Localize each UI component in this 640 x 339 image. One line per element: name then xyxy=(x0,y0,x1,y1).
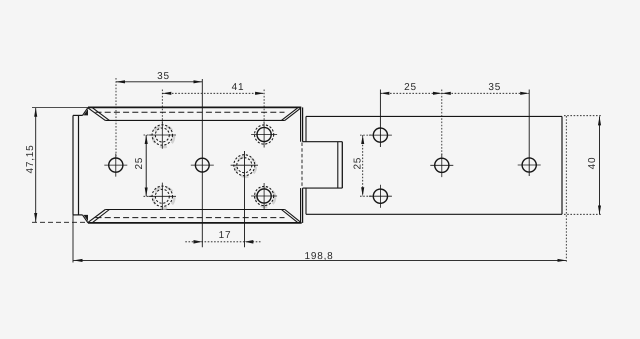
lock case top flange inner line xyxy=(105,119,284,121)
dim 35 line xyxy=(116,81,202,83)
lock case top-right fold diagonal inner xyxy=(281,108,297,121)
hole P1 centerline extension xyxy=(379,90,381,148)
lock case top edge xyxy=(88,106,301,108)
svg-text:17: 17 xyxy=(219,230,232,241)
dim 35 right line xyxy=(442,92,529,94)
hole C countersink dashed circle xyxy=(255,125,274,144)
dim 25 right vertical line xyxy=(362,135,364,196)
dim 198,8 line xyxy=(74,259,567,261)
lock case left cap outer wall xyxy=(72,115,74,214)
lock case bottom flange inner line xyxy=(105,209,284,211)
dim 17 line (dotted) xyxy=(185,241,261,243)
svg-text:47,15: 47,15 xyxy=(25,144,36,173)
latch bolt face inner line xyxy=(337,142,339,188)
lock case bottom-right fold diagonal outer xyxy=(285,210,301,223)
ghost scan smudges near holes B F E G xyxy=(153,126,275,208)
dim 25 left connector bottom (dotted) xyxy=(144,195,152,197)
strike plate left edge upper segment xyxy=(305,116,307,141)
lock case top-left corner fill xyxy=(84,109,89,115)
dim 41 extension to hole B (dotted) xyxy=(161,90,163,125)
lock case left cap inner wall xyxy=(78,115,80,214)
strike plate bottom edge xyxy=(306,213,562,215)
dim 35 extension to hole A (dotted) xyxy=(115,78,117,158)
lock case right cap outer wall lower xyxy=(300,188,302,223)
lock case top-right fold diagonal outer xyxy=(285,108,301,121)
dim 17 left arrow xyxy=(194,240,203,244)
strike plate right edge xyxy=(561,116,563,214)
hole P2 crosshair xyxy=(369,185,392,208)
hole E dashed circles xyxy=(234,155,255,176)
svg-text:25: 25 xyxy=(353,157,364,170)
latch bolt face outer line xyxy=(341,142,343,188)
lock case left cap bottom edge xyxy=(73,214,83,216)
lock case left cap top edge xyxy=(73,114,83,116)
dim 198,8 right extension (dotted) xyxy=(565,116,567,263)
latch bolt top edge xyxy=(303,141,343,143)
dim 47,15 bottom extension (dashed) xyxy=(32,221,88,223)
hole G countersink dashed circle xyxy=(255,186,274,205)
svg-text:35: 35 xyxy=(488,82,501,93)
lock case bottom-left fold diagonal inner xyxy=(92,210,109,223)
hole E centerline extension xyxy=(244,151,246,247)
hole F crosshair xyxy=(149,183,176,210)
dim 41 line xyxy=(162,92,264,94)
lock case bottom edge xyxy=(88,222,302,224)
hole B crosshair xyxy=(149,121,176,148)
lock case right cap inner wall upper xyxy=(302,107,304,141)
hole F dashed circles xyxy=(152,186,172,206)
lock case right cap inner wall lower xyxy=(302,188,304,223)
lock case bottom-left fold diagonal outer xyxy=(88,210,105,223)
strike plate left edge lower segment xyxy=(305,188,307,214)
latch bolt hidden root line (dashed) xyxy=(301,143,303,188)
hole A circle xyxy=(109,158,123,172)
dim 25 top extension to hole P3 (dotted) xyxy=(441,90,443,158)
lock case top-left fold diagonal outer xyxy=(88,108,105,121)
lock case right cap outer wall upper xyxy=(300,107,302,141)
hole B dashed circles xyxy=(152,125,172,145)
hole A crosshair xyxy=(104,154,127,177)
dim 17 right arrow xyxy=(245,240,254,244)
svg-text:198,8: 198,8 xyxy=(304,251,333,262)
hole P2 circle xyxy=(373,189,387,203)
lock case top-left corner chamfer xyxy=(83,107,89,115)
strike plate top edge xyxy=(306,115,562,117)
lock case top-left fold diagonal inner xyxy=(92,107,109,120)
lock case hidden edge top (dashed) xyxy=(96,111,285,113)
dim 198,8 left extension xyxy=(72,215,74,263)
hole G crosshair xyxy=(251,183,277,209)
lock case bottom-right fold diagonal inner xyxy=(281,210,297,223)
lock case bottom-left corner chamfer xyxy=(83,215,89,223)
hole C circle xyxy=(257,127,271,141)
hole G circle xyxy=(257,189,271,203)
hole C crosshair xyxy=(251,122,277,148)
hole D crosshair xyxy=(191,164,214,166)
hole P4 crosshair xyxy=(518,164,541,166)
lock case bottom-left corner fill xyxy=(84,215,89,221)
svg-text:41: 41 xyxy=(232,82,245,93)
dim 25 right connector bottom (dotted) xyxy=(360,195,373,197)
hole E crosshair xyxy=(231,164,258,166)
dim 47,15 top extension xyxy=(32,107,88,109)
svg-text:25: 25 xyxy=(404,82,417,93)
dim 25 left connector top (dotted) xyxy=(144,134,152,136)
dim 25 top line xyxy=(380,92,441,94)
hole P4 circle xyxy=(522,158,536,172)
latch bolt bottom edge xyxy=(303,187,343,189)
hole P1 circle xyxy=(373,128,387,142)
dim 25 left vertical line xyxy=(145,135,147,196)
svg-text:40: 40 xyxy=(587,157,598,170)
dim 40 line xyxy=(599,116,601,214)
dim 40 bottom extension (dotted) xyxy=(564,213,602,215)
hole P3 crosshair xyxy=(430,154,453,178)
svg-text:25: 25 xyxy=(134,157,145,170)
dim 25 right connector top (dotted) xyxy=(360,134,373,136)
dim 40 top extension (dotted) xyxy=(564,115,602,117)
hole P4 centerline extension xyxy=(528,90,530,177)
hole P3 circle xyxy=(435,158,449,172)
dim 47,15 line xyxy=(35,108,37,222)
hole D circle xyxy=(195,158,209,172)
dim 41 extension to hole C (dotted) xyxy=(263,90,265,127)
hole P1 crosshair xyxy=(369,134,392,136)
svg-text:35: 35 xyxy=(157,71,170,82)
hole D centerline extension xyxy=(201,79,203,247)
lock case hidden edge bottom (dashed) xyxy=(96,217,285,219)
